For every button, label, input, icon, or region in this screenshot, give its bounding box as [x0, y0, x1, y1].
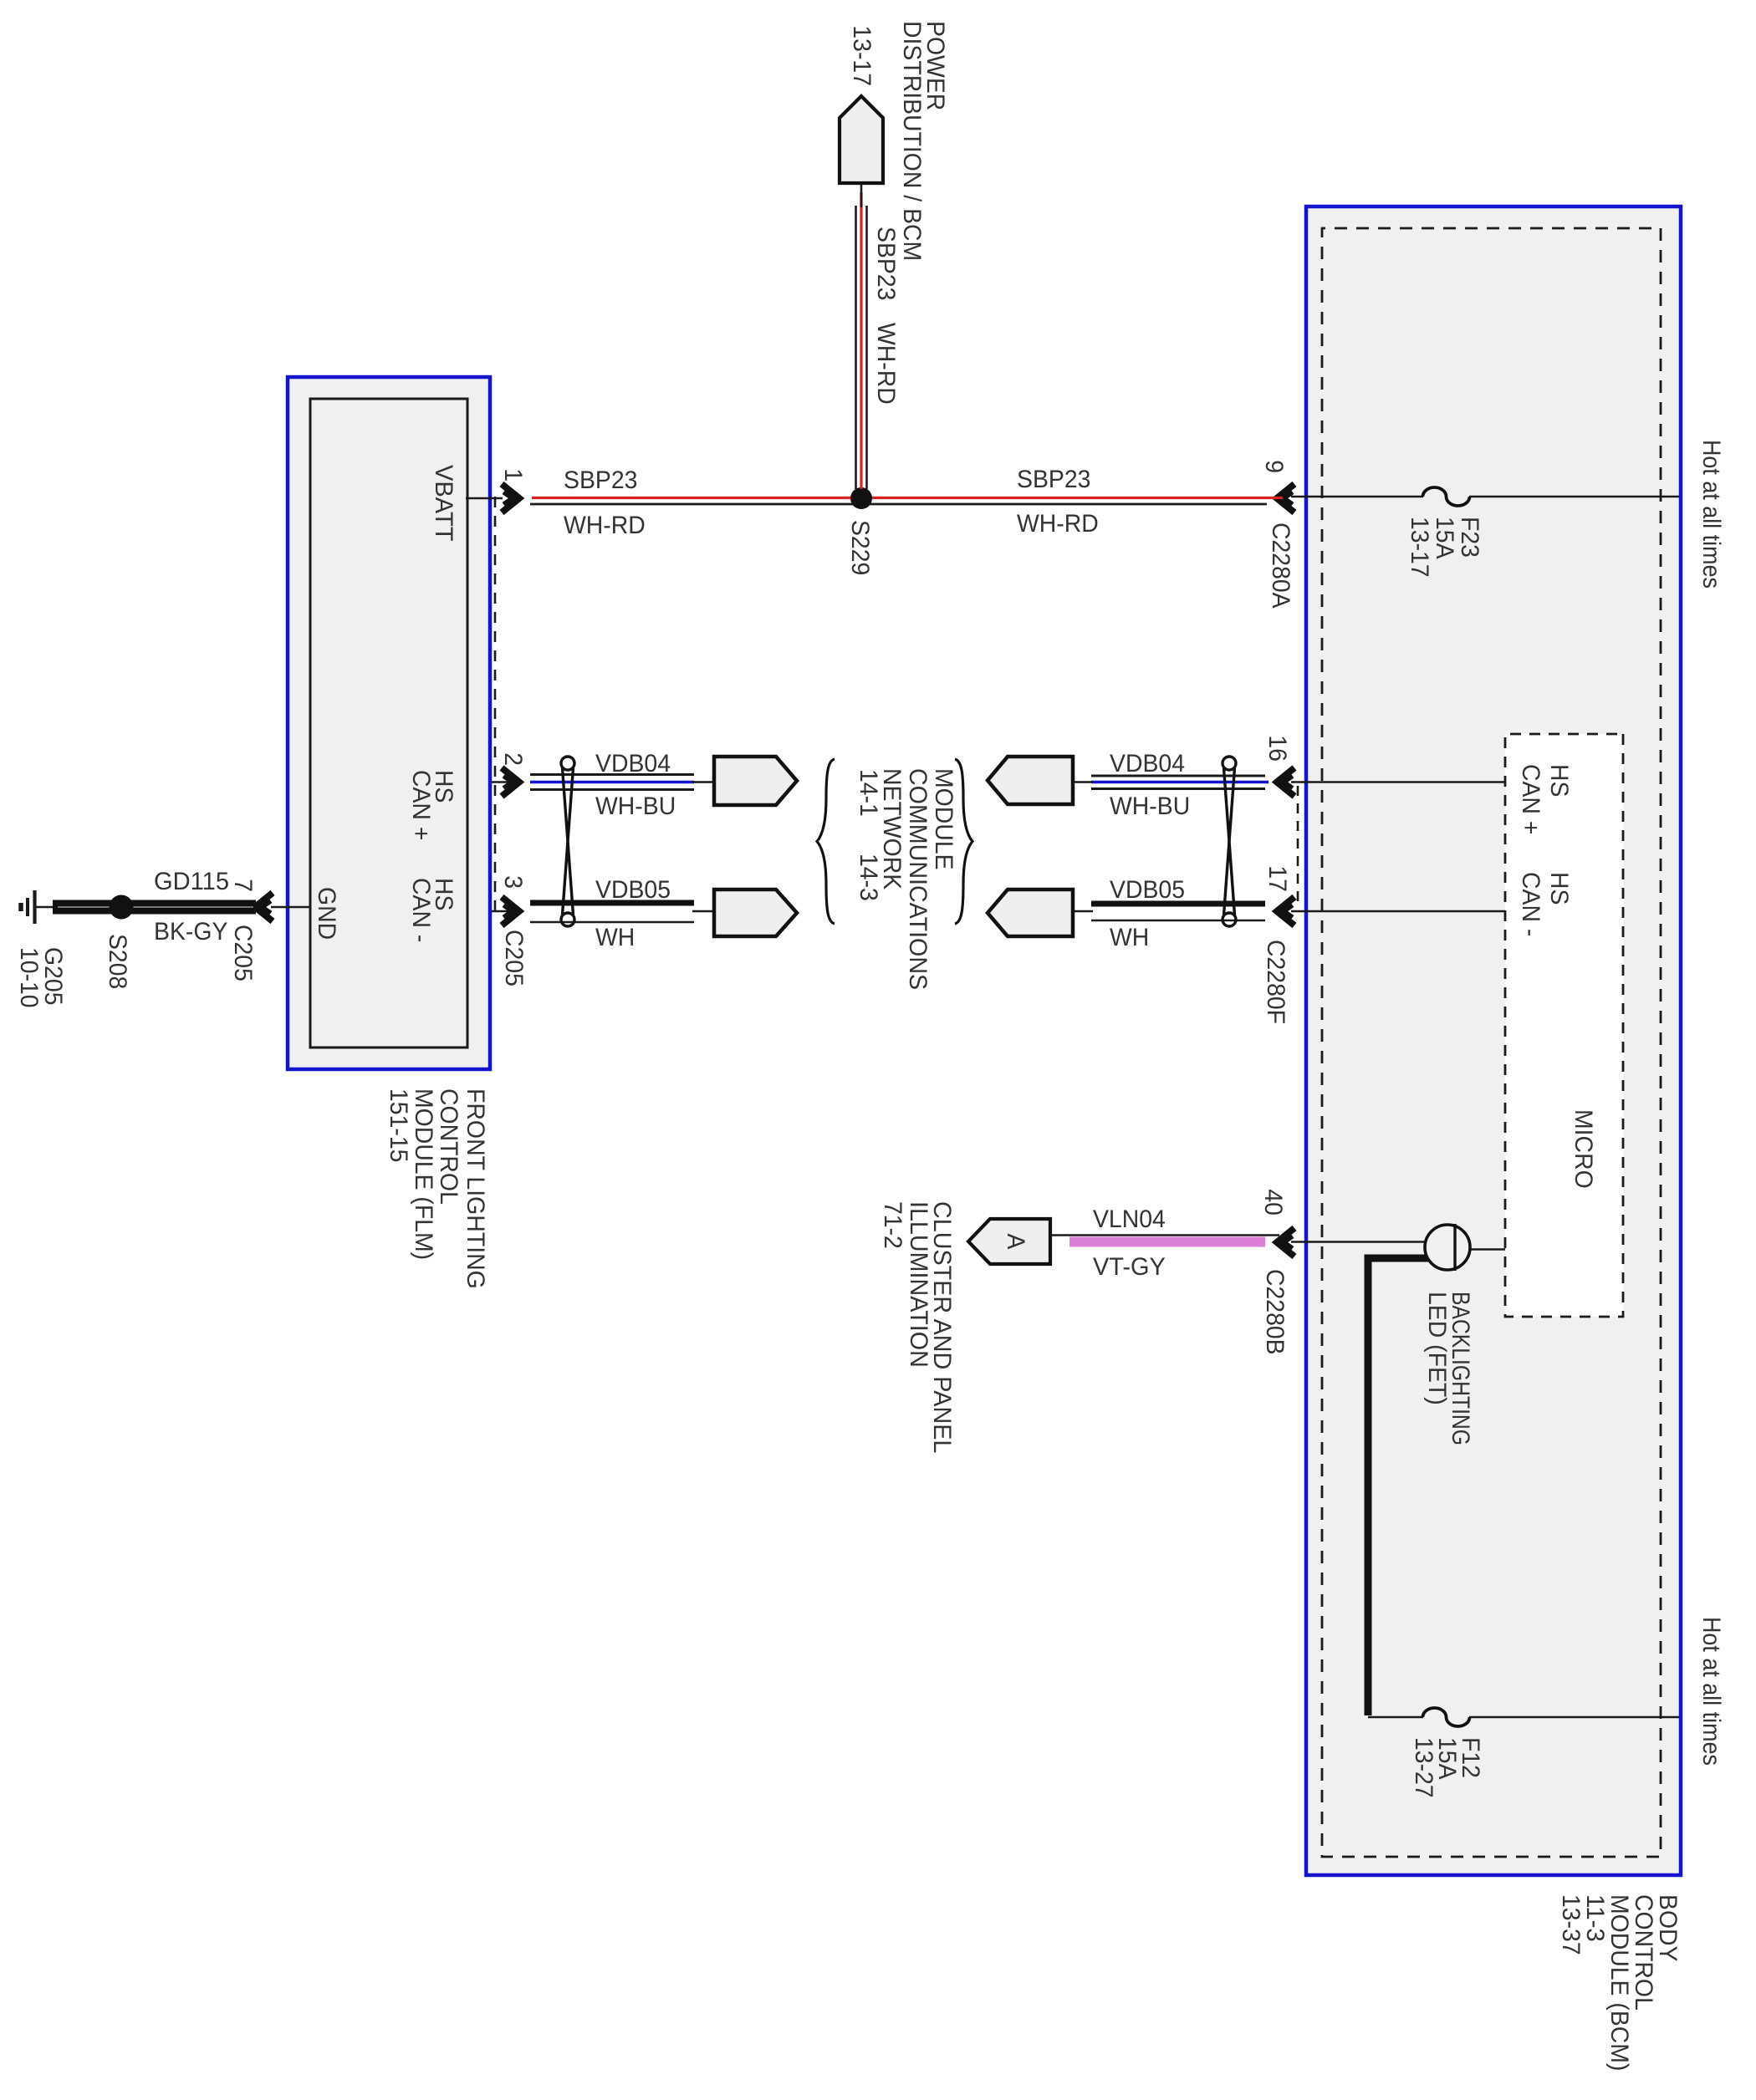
pin 9 arrow C2280A — [1277, 484, 1294, 512]
svg-text:C205: C205 — [229, 925, 257, 981]
wire F12 feed — [1368, 1716, 1679, 1719]
svg-text:C205: C205 — [500, 930, 528, 986]
svg-text:CAN -: CAN - — [407, 878, 435, 942]
splice S229 — [850, 487, 872, 509]
svg-text:BODY: BODY — [1654, 1894, 1682, 1962]
connector pentagon POWER DISTRIBUTION / BCM — [840, 96, 883, 183]
wire VDB04 FLM-side pair with blue stripe — [530, 773, 694, 776]
svg-text:G205: G205 — [39, 947, 67, 1006]
svg-text:17: 17 — [1263, 865, 1291, 892]
twisted pair symbol BCM side — [1223, 757, 1236, 926]
svg-text:C2280F: C2280F — [1262, 940, 1289, 1024]
connector C205 dashed line — [494, 497, 497, 920]
svg-text:13-17: 13-17 — [1406, 517, 1433, 578]
svg-text:VDB05: VDB05 — [595, 876, 671, 904]
FET gate wire pin 40 — [1291, 1241, 1455, 1243]
splice S208 — [110, 895, 134, 920]
svg-text:151-15: 151-15 — [385, 1088, 412, 1162]
svg-text:7: 7 — [229, 879, 257, 892]
svg-text:15A: 15A — [1431, 517, 1458, 559]
svg-text:Hot at all times: Hot at all times — [1697, 440, 1725, 589]
svg-text:MODULE: MODULE — [930, 768, 957, 870]
svg-text:VLN04: VLN04 — [1093, 1205, 1166, 1233]
svg-text:Hot at all times: Hot at all times — [1697, 1617, 1725, 1766]
svg-text:71-2: 71-2 — [879, 1201, 906, 1249]
svg-text:SBP23: SBP23 — [1017, 466, 1090, 493]
svg-text:13-27: 13-27 — [1410, 1737, 1437, 1798]
svg-text:SBP23: SBP23 — [872, 227, 900, 300]
connector pentagon VDB05 up — [714, 889, 797, 936]
transistor BACKLIGHTING LED (FET) — [1425, 1225, 1470, 1270]
svg-text:DISTRIBUTION / BCM: DISTRIBUTION / BCM — [898, 21, 926, 261]
svg-text:WH-RD: WH-RD — [1017, 510, 1099, 538]
svg-text:VT-GY: VT-GY — [1093, 1253, 1166, 1281]
svg-text:CAN +: CAN + — [407, 770, 435, 840]
svg-text:MICRO: MICRO — [1570, 1109, 1597, 1189]
svg-text:LED (FET): LED (FET) — [1423, 1292, 1451, 1405]
svg-text:WH-BU: WH-BU — [595, 793, 676, 820]
svg-text:VDB05: VDB05 — [1110, 876, 1185, 904]
branch wire black-red-black to power distribution — [865, 206, 868, 489]
connector pentagon VDB04 down — [988, 757, 1073, 804]
svg-text:A: A — [1002, 1234, 1029, 1250]
svg-text:WH: WH — [595, 924, 635, 951]
svg-text:40: 40 — [1259, 1189, 1287, 1216]
svg-text:GND: GND — [313, 887, 340, 940]
FLM module box (FRONT LIGHTING CONTROL MODULE) — [288, 377, 490, 1069]
BCM module box (BODY CONTROL MODULE) — [1306, 206, 1681, 1875]
wire pin1 VBATT lead — [466, 497, 503, 500]
fuse F12 — [1423, 1708, 1470, 1726]
svg-text:BK-GY: BK-GY — [154, 918, 228, 946]
FLM inner box — [310, 399, 467, 1047]
svg-text:13-17: 13-17 — [848, 25, 875, 86]
connector pentagon VDB05 down — [988, 889, 1073, 936]
brace lower module comms network — [817, 759, 835, 924]
fuse F23 — [1423, 487, 1470, 506]
svg-text:WH-RD: WH-RD — [564, 512, 646, 539]
svg-text:VDB04: VDB04 — [595, 750, 671, 777]
svg-text:C2280B: C2280B — [1261, 1269, 1289, 1355]
svg-text:CAN -: CAN - — [1517, 872, 1544, 936]
pin 40 arrow C2280B — [1277, 1228, 1294, 1256]
wire F23 feed — [1291, 496, 1679, 498]
svg-text:3: 3 — [499, 875, 527, 889]
svg-text:13-37: 13-37 — [1557, 1894, 1585, 1955]
svg-text:2: 2 — [499, 752, 527, 766]
pin 16 arrow — [1277, 768, 1294, 797]
twisted pair symbol FLM side — [561, 757, 574, 926]
wire HS CAN+ in BCM — [1291, 781, 1505, 783]
svg-text:FRONT LIGHTING: FRONT LIGHTING — [462, 1088, 489, 1289]
svg-text:10-10: 10-10 — [15, 947, 43, 1008]
svg-text:GD115: GD115 — [154, 868, 229, 895]
svg-text:MODULE (BCM): MODULE (BCM) — [1605, 1894, 1633, 2071]
connector pentagon A cluster illumination — [968, 1219, 1050, 1264]
brace upper module comms network — [955, 759, 972, 924]
svg-text:SBP23: SBP23 — [564, 466, 637, 494]
svg-text:14-1: 14-1 — [855, 769, 882, 817]
wire VDB05 FLM-side pair thick+thin — [530, 900, 694, 906]
svg-text:14-3: 14-3 — [855, 854, 882, 901]
svg-text:C2280A: C2280A — [1267, 522, 1294, 609]
svg-text:WH: WH — [1110, 924, 1149, 951]
connector C2280F dashed line — [1297, 786, 1299, 902]
pin 2 arrow FLM — [502, 768, 519, 797]
svg-text:VBATT: VBATT — [430, 465, 457, 542]
wire VLN04 violet stripe — [1069, 1237, 1265, 1247]
pin 7 arrow GND — [255, 893, 273, 921]
svg-text:COMMUNICATIONS: COMMUNICATIONS — [904, 768, 932, 990]
wire VDB05 BCM-side pair thick+thin — [1091, 901, 1265, 907]
svg-text:S208: S208 — [104, 934, 131, 989]
wire VDB04 FLM thin lead — [466, 781, 518, 783]
FET wire to micro — [1454, 1248, 1505, 1251]
BCM inner dashed boundary — [1322, 228, 1661, 1857]
wire SBP23 black line — [530, 503, 1267, 506]
FET thick drain wire — [1368, 1258, 1454, 1715]
ground symbol G205 — [35, 906, 53, 909]
svg-text:WH-BU: WH-BU — [1110, 793, 1190, 820]
pin 3 arrow FLM — [502, 897, 519, 925]
svg-text:F23: F23 — [1456, 517, 1483, 558]
wire VDB04 BCM-side pair with blue stripe — [1091, 775, 1265, 777]
MICRO dashed box — [1505, 734, 1623, 1317]
FET bar — [1453, 1224, 1456, 1271]
svg-text:WH-RD: WH-RD — [872, 323, 900, 405]
svg-text:CONTROL: CONTROL — [435, 1088, 462, 1205]
wire SBP23 red line — [532, 497, 1283, 499]
svg-text:HS: HS — [1545, 764, 1573, 797]
svg-text:S229: S229 — [846, 520, 874, 575]
svg-text:11-3: 11-3 — [1581, 1894, 1609, 1942]
svg-text:VDB04: VDB04 — [1110, 750, 1185, 777]
svg-text:16: 16 — [1263, 735, 1291, 762]
svg-text:CAN +: CAN + — [1517, 764, 1544, 834]
svg-text:CONTROL: CONTROL — [1630, 1894, 1657, 2011]
wire VLN04 black line — [1050, 1234, 1279, 1236]
wire GND lead — [271, 906, 310, 909]
svg-text:HS: HS — [1545, 872, 1573, 905]
wire GD115 gray stripe — [58, 906, 253, 908]
wire HS CAN- in BCM — [1291, 910, 1505, 913]
pin 17 arrow — [1277, 897, 1294, 925]
svg-text:1: 1 — [499, 468, 527, 482]
wire GD115 thick black — [53, 900, 256, 915]
svg-text:9: 9 — [1260, 460, 1288, 473]
svg-text:ILLUMINATION: ILLUMINATION — [905, 1201, 932, 1368]
wire stub at pentagon — [860, 183, 863, 207]
svg-text:MODULE (FLM): MODULE (FLM) — [410, 1088, 437, 1260]
pin 1 arrow FLM — [502, 484, 519, 512]
connector pentagon VDB04 up — [714, 757, 797, 805]
